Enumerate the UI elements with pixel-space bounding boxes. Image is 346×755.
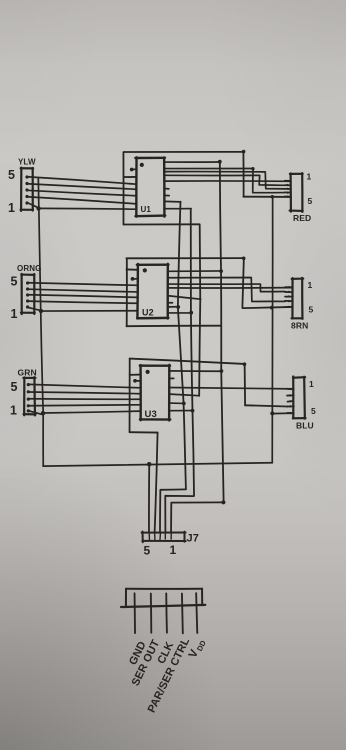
legend pins [135, 593, 198, 633]
node J7 pin5 step corner [221, 500, 225, 504]
op-amp U3 (shift register IC) [130, 365, 171, 421]
node row3 rail corner [243, 362, 247, 366]
svg-text:ORNG: ORNG [17, 264, 41, 273]
label J7 [187, 533, 199, 545]
wire GND bus mid [199, 225, 200, 396]
label GRN [18, 368, 37, 378]
wire U1 left rail [122, 152, 124, 224]
pin label 5 (J7) [144, 544, 151, 558]
wire bus ORNG to U2 (5 lines) [28, 283, 138, 311]
pin label 5 (ORNG) [11, 275, 18, 289]
wire U1 out to RED pin1 [164, 180, 291, 182]
svg-text:U1: U1 [141, 205, 152, 214]
wire bus YLW to U1 (5 lines) [27, 177, 137, 209]
wire CLK bus [178, 202, 186, 490]
wire row2 top rail [126, 257, 243, 259]
pin label 5 (RED) [308, 196, 313, 206]
connector J6 BLU [287, 376, 305, 418]
svg-text:J7: J7 [187, 533, 199, 545]
wire GND right rail [271, 197, 273, 463]
pin label 5 (BLU) [311, 406, 316, 416]
legend signal label VDD [187, 636, 208, 660]
wire J7 pin1 up to GND rail [148, 464, 150, 532]
node J7 pin1 junction on bottom rail [147, 462, 152, 467]
wire J7 pin3 step [160, 489, 186, 532]
connector J3 GRN [23, 377, 43, 415]
connector J4 RED [285, 173, 303, 212]
wire U3 left rail [129, 359, 131, 432]
wire W3 below U3 [130, 431, 158, 433]
wire W1 below U1 [123, 223, 199, 225]
pin label 1 (J7) [170, 543, 177, 557]
node GRN pin1 junction [41, 411, 45, 415]
wire row2 rail to BRN pin5 [243, 307, 293, 308]
label U2 [142, 308, 154, 318]
node row2 rail corner [242, 257, 246, 261]
node CLK junction U2 [176, 305, 180, 309]
connector J7 [142, 532, 186, 543]
pin label 5 (BRN) [309, 305, 314, 315]
svg-text:DD: DD [195, 638, 208, 652]
connector J1 YLW [21, 168, 39, 211]
wire J7 pin5 step [171, 502, 223, 532]
connector legend header [121, 589, 205, 607]
label U1 [141, 205, 152, 214]
pin label 1 (YLW) [8, 201, 15, 215]
svg-text:1: 1 [170, 543, 177, 557]
wire J7 pin4 step [165, 496, 193, 532]
node VDD junction U1 [218, 160, 222, 164]
node GND rail junction row3 [270, 411, 274, 415]
pin label 1 (RED) [307, 172, 312, 182]
wire U3 VDD out [169, 370, 222, 372]
svg-text:1: 1 [308, 280, 313, 290]
pin nubs U1 right [164, 189, 169, 196]
op-amp U2 (shift register IC) [127, 264, 169, 319]
node VDD junction U3 [220, 369, 224, 373]
connector J5 BRN [285, 278, 303, 319]
legend signal labels GND / SER OUT / CLK / PAR-SER CTRL [127, 636, 192, 715]
wire U1 out to RED pin4 [164, 168, 285, 192]
svg-text:GRN: GRN [18, 368, 37, 378]
wire U3 CLK stub [169, 402, 183, 404]
node PAR/SER junction U2 [189, 311, 193, 315]
svg-text:1: 1 [307, 172, 312, 182]
pin label 1 (BRN) [308, 280, 313, 290]
svg-text:5: 5 [11, 275, 18, 289]
label ORNG [17, 264, 41, 273]
node PAR/SER junction U3 [191, 409, 195, 413]
label RED [293, 213, 311, 223]
wire row2 right rail down [242, 258, 243, 308]
pin nub U3 right [169, 377, 173, 379]
svg-text:5: 5 [8, 168, 15, 182]
node CLK junction U3 [182, 402, 186, 406]
svg-text:1: 1 [10, 404, 17, 418]
node ORNG pin1 junction [39, 309, 43, 313]
svg-text:YLW: YLW [18, 158, 36, 167]
wire U2 out to BRN pin1 [168, 287, 293, 289]
wire row3 top rail [130, 359, 245, 364]
pin label 5 (GRN) [11, 380, 18, 394]
wire bus GRN to U3 (5 lines) [28, 384, 141, 413]
wire U1 PAR/SER stub [164, 208, 191, 210]
wire GND bottom rail [43, 463, 272, 466]
connector J2 ORNG [21, 274, 41, 314]
wire U3 PAR/SER stub [169, 410, 192, 412]
svg-text:BLU: BLU [296, 421, 314, 431]
label BLU [296, 421, 314, 431]
label 8RN [291, 321, 308, 331]
node row1 rail corner [242, 150, 246, 154]
wire U2 out to BRN pin2 [168, 284, 285, 292]
wire U2 out to BRN pin4 [168, 278, 285, 302]
svg-text:1: 1 [8, 201, 15, 215]
node VDD junction U2 [219, 269, 223, 273]
pin label 5 (YLW) [8, 168, 15, 182]
wire U3 GND out [169, 394, 199, 396]
node GND rail junction row1 [271, 195, 274, 198]
svg-text:1: 1 [11, 307, 18, 321]
pin label 1 (GRN) [10, 404, 17, 418]
wire U2 left rail [126, 258, 128, 326]
wire U1 CLK stub [164, 200, 180, 202]
pin nub U2 right [168, 302, 173, 304]
svg-text:1: 1 [309, 379, 314, 389]
wire row1 top rail [124, 151, 244, 153]
pin label 1 (ORNG) [11, 307, 18, 321]
label YLW [18, 158, 36, 167]
wire U2 PAR/SER stub [168, 312, 191, 314]
wire U2 VDD out [168, 270, 222, 272]
svg-text:U2: U2 [142, 308, 154, 318]
svg-text:RED: RED [293, 213, 311, 223]
svg-text:5: 5 [144, 544, 151, 558]
svg-text:5: 5 [308, 196, 313, 206]
pin label 1 (BLU) [309, 379, 314, 389]
op-amp U1 (shift register IC) [124, 157, 165, 216]
wire U1 out to RED pin3 [164, 172, 285, 189]
wire U3 out to BLU pin1 [169, 388, 293, 389]
node YLW pin1 junction [36, 206, 40, 210]
node staircase corner row1 [251, 167, 254, 170]
wire GND left rail [38, 178, 43, 466]
svg-text:8RN: 8RN [291, 321, 308, 331]
svg-text:5: 5 [311, 406, 316, 416]
wire row1 right rail down [242, 152, 244, 196]
wire VDD bus [220, 162, 224, 502]
node GND rail junction row2 [270, 306, 274, 310]
svg-text:U3: U3 [145, 409, 157, 420]
wire U1 out to RED pin2 [164, 175, 284, 185]
wire row1 rail to RED pin5 [243, 196, 290, 198]
wire W2 below U2 [126, 325, 221, 328]
wire U2 GND out [168, 296, 200, 299]
wire U1 VDD out [164, 161, 220, 163]
wire SER chain U3 to J7 pin2 [155, 433, 158, 533]
wire row3 right rail down [244, 364, 246, 405]
wire U2 CLK stub [168, 306, 178, 308]
wire PAR/SER bus [191, 209, 194, 496]
wire row3 rail to BLU pin4 [245, 405, 287, 406]
wire GND rail to BLU pin5 [272, 412, 293, 415]
svg-text:5: 5 [11, 380, 18, 394]
label U3 [145, 409, 157, 420]
svg-text:5: 5 [309, 305, 314, 315]
